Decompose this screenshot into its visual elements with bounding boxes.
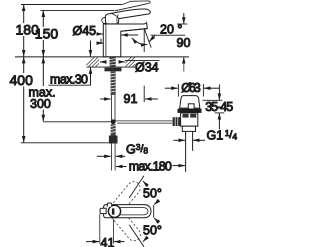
svg-text:Ø34: Ø34 xyxy=(135,61,159,75)
countertop top line xyxy=(15,56,189,58)
lever handle grip inner line xyxy=(117,15,118,24)
wire: 180-dim top extension line xyxy=(21,4,122,6)
dimension 400 vertical line with arrows xyxy=(23,57,25,143)
faucet body (side view) xyxy=(103,23,147,57)
pull rod knurled knob xyxy=(173,117,181,126)
dimension 90 arrows xyxy=(183,13,185,72)
top view: body circle xyxy=(108,205,120,217)
top view: front tab xyxy=(100,208,106,213)
drain body detail rects xyxy=(183,114,189,118)
supply rod thin section xyxy=(111,95,115,121)
drain pop-up waste: Ø63 dimension xyxy=(165,87,219,89)
top view: solid handle capsule xyxy=(104,205,151,218)
svg-text:Ø63: Ø63 xyxy=(181,81,201,95)
dimension max.180 with arrows xyxy=(116,165,185,168)
top view: rotated axis line upper xyxy=(129,176,144,198)
dimension 35-45 ticks xyxy=(203,99,223,101)
upper 50deg arc arrows xyxy=(143,181,148,187)
small bent leader arrow at faucet base xyxy=(101,39,103,44)
dimension 35-45 arrows xyxy=(218,85,220,130)
dimension 41 extension lines xyxy=(100,214,114,244)
dimension 150 vertical line with arrows xyxy=(42,10,44,56)
wire: Ø34 leader landing xyxy=(125,59,160,61)
lever handle grip/arm joint line xyxy=(111,13,119,18)
wire: max.300 bottom line / drain pull rod level xyxy=(43,121,113,123)
faucet body inner left edge line xyxy=(105,24,107,57)
faucet spout underside line xyxy=(121,29,148,32)
threaded rod lower dark section xyxy=(111,124,116,135)
drain tailpipe xyxy=(185,131,187,171)
top view: dashed handle rotated down 50deg xyxy=(108,205,143,243)
svg-text:50°: 50° xyxy=(143,224,162,238)
drain body xyxy=(181,113,198,126)
angular dimension boundary line (vertical at handle end) xyxy=(153,205,155,218)
top view: inner capsule line xyxy=(120,208,148,215)
top view: top notch xyxy=(107,203,111,207)
pull rod from junction to drain knob xyxy=(113,120,173,122)
dimension 90 top tick xyxy=(177,23,187,25)
svg-text:max.180: max.180 xyxy=(129,160,172,174)
svg-text:35-45: 35-45 xyxy=(205,100,233,114)
svg-text:91: 91 xyxy=(124,92,138,106)
outlet axis vertical line xyxy=(143,28,145,52)
top view: rotated axis line lower xyxy=(129,225,144,247)
svg-text:50°: 50° xyxy=(143,187,162,201)
drain lower collar xyxy=(182,126,195,131)
mounting nut under counter xyxy=(105,68,122,72)
svg-text:90: 90 xyxy=(177,36,191,50)
dimension G1 1/4 arrows at tailpipe xyxy=(174,139,206,141)
svg-text:300: 300 xyxy=(30,97,51,111)
svg-text:G11/4: G11/4 xyxy=(207,128,238,143)
junction dot on pull rod xyxy=(111,119,116,124)
dimension G3/8 arrows xyxy=(97,155,125,157)
dimension 41 arrows xyxy=(86,241,125,243)
wire: 150-dim top extension line xyxy=(41,9,115,11)
threaded rod below nut xyxy=(111,71,116,95)
drain plug cap xyxy=(180,96,200,109)
wire: 400-dim bottom extension line xyxy=(21,142,110,144)
drain flange (black band) xyxy=(178,109,202,113)
lever handle front curl xyxy=(102,17,106,23)
wire: Ø63 extension ticks xyxy=(177,84,179,97)
threaded shank through counter xyxy=(110,57,116,68)
dimension Ø34 hole arrows (inside hole pointing outward) xyxy=(100,61,125,63)
faucet lever handle (side view) xyxy=(105,9,150,24)
svg-text:150: 150 xyxy=(35,26,59,42)
countertop bottom line xyxy=(87,66,136,68)
wire: 91 right extension tick xyxy=(143,86,145,102)
angle arc with arrowheads for 20deg xyxy=(132,38,148,45)
dimension 91 arrows and tick xyxy=(100,98,158,100)
leader arrow from 20deg label xyxy=(149,35,155,41)
supply hose coupling nut xyxy=(109,136,118,144)
countertop section hatching xyxy=(84,57,143,68)
lower 50deg arc arrows xyxy=(154,218,157,223)
dimension max.300 vertical line with arrows xyxy=(42,57,44,122)
svg-text:Ø45: Ø45 xyxy=(73,24,97,38)
outlet tilted line 20deg xyxy=(144,28,151,47)
drain plug stem xyxy=(188,104,194,109)
dimension 180 vertical line with arrows xyxy=(23,5,25,57)
supply connection tick lines below xyxy=(111,144,115,171)
dimension max.30 arrows at counter xyxy=(90,41,92,86)
top view: dashed handle rotated up 50deg xyxy=(108,179,143,217)
svg-text:20 °: 20 ° xyxy=(160,23,182,37)
svg-text:G3/8: G3/8 xyxy=(126,142,148,157)
lever raised position outline (thin) xyxy=(115,1,150,11)
svg-text:41: 41 xyxy=(101,236,115,247)
top view: dark lever bar xyxy=(112,208,115,214)
svg-text:max.30: max.30 xyxy=(50,73,88,87)
